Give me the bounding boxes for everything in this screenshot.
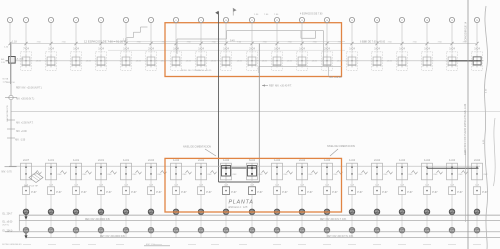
svg-text:1-C4: 1-C4 bbox=[223, 47, 229, 51]
svg-text:REF. NIV. +20.40 P.T.: REF. NIV. +20.40 P.T. bbox=[269, 85, 292, 88]
svg-text:2-C1: 2-C1 bbox=[98, 158, 104, 162]
svg-text:EL. 234.7: EL. 234.7 bbox=[3, 214, 14, 216]
svg-text:1-C4: 1-C4 bbox=[424, 158, 430, 162]
svg-text:1-C4: 1-C4 bbox=[123, 47, 129, 51]
svg-text:1-C4: 1-C4 bbox=[324, 158, 330, 162]
svg-text:+N.05: +N.05 bbox=[237, 61, 243, 63]
svg-text:DET. NIV. 200 D.T.N. D.B.: DET. NIV. 200 D.T.N. D.B. bbox=[327, 236, 354, 238]
svg-text:1-C4: 1-C4 bbox=[349, 47, 355, 51]
svg-text:P-67: P-67 bbox=[307, 191, 313, 194]
svg-text:COINCIDIR EJE 14: COINCIDIR EJE 14 bbox=[466, 21, 468, 42]
svg-text:COINCIDIR CON PLANO ESTRUCTURA: COINCIDIR CON PLANO ESTRUCTURAL E-02 bbox=[464, 103, 467, 155]
svg-text:P-67: P-67 bbox=[357, 191, 363, 194]
svg-text:ESCALA 1 : 125: ESCALA 1 : 125 bbox=[229, 205, 248, 209]
svg-text:1-C4: 1-C4 bbox=[399, 158, 405, 162]
svg-text:1-C4: 1-C4 bbox=[73, 47, 79, 51]
svg-text:P-67: P-67 bbox=[382, 191, 388, 194]
svg-text:12 ESPACIOS DE 7.60 = 91.20 M: 12 ESPACIOS DE 7.60 = 91.20 M bbox=[84, 40, 127, 44]
svg-text:NIVEL DE CONCRETO +20.15: NIVEL DE CONCRETO +20.15 bbox=[181, 70, 212, 72]
svg-text:2-C7: 2-C7 bbox=[23, 158, 29, 162]
svg-text:+N.05: +N.05 bbox=[161, 61, 167, 63]
svg-text:+N.05: +N.05 bbox=[287, 61, 293, 63]
svg-text:1-C4: 1-C4 bbox=[274, 47, 280, 51]
svg-text:1-C4: 1-C4 bbox=[173, 158, 179, 162]
svg-text:P-67: P-67 bbox=[282, 191, 288, 194]
svg-text:NIV. +20.00 (N.T.): NIV. +20.00 (N.T.) bbox=[16, 98, 34, 100]
svg-text:+N.05: +N.05 bbox=[36, 61, 42, 63]
svg-text:P-67: P-67 bbox=[156, 191, 162, 194]
svg-text:1-C4: 1-C4 bbox=[399, 47, 405, 51]
svg-text:1-C4: 1-C4 bbox=[48, 47, 54, 51]
svg-text:+N.05: +N.05 bbox=[186, 61, 192, 63]
svg-text:+N.05: +N.05 bbox=[211, 61, 217, 63]
svg-text:1.18: 1.18 bbox=[12, 41, 17, 44]
svg-text:LA +0.05: LA +0.05 bbox=[16, 57, 25, 60]
svg-text:REF. NIV. 200.0000 D.B.: REF. NIV. 200.0000 D.B. bbox=[85, 219, 111, 221]
svg-text:1-C1: 1-C1 bbox=[123, 158, 129, 162]
svg-text:NIVEL DE CIMENTACION: NIVEL DE CIMENTACION bbox=[183, 145, 211, 148]
svg-text:P-67: P-67 bbox=[181, 191, 187, 194]
svg-text:2-C4: 2-C4 bbox=[198, 158, 204, 162]
svg-text:NOTA: NOTA bbox=[3, 78, 9, 81]
svg-text:2-C4: 2-C4 bbox=[374, 158, 380, 162]
svg-text:1-C4: 1-C4 bbox=[424, 47, 430, 51]
svg-text:NIVEL DE CIMENTACION: NIVEL DE CIMENTACION bbox=[327, 145, 355, 148]
svg-text:1-C4: 1-C4 bbox=[374, 47, 380, 51]
svg-text:1-C1: 1-C1 bbox=[73, 158, 79, 162]
svg-text:PLANTA: PLANTA bbox=[229, 199, 254, 205]
svg-text:1-C4: 1-C4 bbox=[474, 47, 480, 51]
svg-text:NIV. -1.50: NIV. -1.50 bbox=[15, 140, 26, 142]
svg-text:NIV. +0.00: NIV. +0.00 bbox=[16, 131, 27, 133]
svg-text:REF. NIV. +20.00 (N.P.T.): REF. NIV. +20.00 (N.P.T.) bbox=[16, 87, 42, 89]
svg-text:2-C4: 2-C4 bbox=[148, 47, 154, 51]
svg-text:1-C4: 1-C4 bbox=[173, 47, 179, 51]
svg-text:JUNTA CONSTR.: JUNTA CONSTR. bbox=[6, 104, 9, 122]
svg-text:4 ESPACIOS DE 7.60: 4 ESPACIOS DE 7.60 bbox=[300, 13, 323, 16]
svg-text:P-67: P-67 bbox=[106, 191, 112, 194]
svg-text:P-67: P-67 bbox=[231, 191, 237, 194]
svg-text:P-67: P-67 bbox=[257, 191, 263, 194]
svg-text:2-C4: 2-C4 bbox=[299, 158, 305, 162]
svg-text:+N.05: +N.05 bbox=[262, 61, 268, 63]
svg-text:P-67: P-67 bbox=[457, 191, 463, 194]
svg-text:DET. NIV. 200-0000 D.B.: DET. NIV. 200-0000 D.B. bbox=[100, 236, 126, 238]
svg-text:REF. 1.50: REF. 1.50 bbox=[6, 82, 16, 84]
svg-text:P-67: P-67 bbox=[56, 191, 62, 194]
svg-text:1-C4: 1-C4 bbox=[198, 47, 204, 51]
svg-text:+N.05: +N.05 bbox=[136, 61, 142, 63]
svg-text:EL. 234.0: EL. 234.0 bbox=[3, 231, 14, 233]
svg-text:1-C4: 1-C4 bbox=[299, 47, 305, 51]
svg-text:1-C4: 1-C4 bbox=[274, 158, 280, 162]
svg-text:1-C4: 1-C4 bbox=[98, 47, 104, 51]
svg-text:P-67: P-67 bbox=[432, 191, 438, 194]
svg-text:1-C4: 1-C4 bbox=[449, 47, 455, 51]
svg-text:+N.05: +N.05 bbox=[387, 61, 393, 63]
svg-text:NIV. -0.70: NIV. -0.70 bbox=[2, 172, 13, 174]
svg-text:9.45: 9.45 bbox=[230, 40, 235, 43]
svg-text:1-C4: 1-C4 bbox=[349, 158, 355, 162]
svg-text:7-C4: 7-C4 bbox=[23, 47, 29, 51]
svg-text:1-C4: 1-C4 bbox=[223, 158, 229, 162]
svg-text:NIV. +20.40: NIV. +20.40 bbox=[329, 76, 342, 79]
svg-text:NIV. +2.50 N.P.T.: NIV. +2.50 N.P.T. bbox=[16, 123, 34, 125]
svg-text:P-67: P-67 bbox=[206, 191, 212, 194]
svg-text:1.50: 1.50 bbox=[123, 39, 128, 41]
svg-text:2-C4: 2-C4 bbox=[324, 47, 330, 51]
svg-text:6-C4: 6-C4 bbox=[249, 158, 255, 162]
svg-text:+N.05: +N.05 bbox=[86, 61, 92, 63]
svg-text:+N.05: +N.05 bbox=[312, 61, 318, 63]
svg-text:ESC 1:50: ESC 1:50 bbox=[146, 244, 155, 246]
svg-text:(N.P.T.): (N.P.T.) bbox=[3, 224, 10, 226]
svg-text:+N.05: +N.05 bbox=[337, 61, 343, 63]
svg-text:P-67: P-67 bbox=[332, 191, 338, 194]
svg-text:1-C4: 1-C4 bbox=[449, 158, 455, 162]
svg-text:P-67: P-67 bbox=[31, 191, 37, 194]
svg-text:2-C4: 2-C4 bbox=[249, 47, 255, 51]
svg-text:EL. ±0.00: EL. ±0.00 bbox=[3, 221, 14, 223]
svg-text:NOTAS GENERALES: NOTAS GENERALES bbox=[2, 243, 22, 246]
svg-text:P-67: P-67 bbox=[407, 191, 413, 194]
svg-text:P-67: P-67 bbox=[131, 191, 137, 194]
svg-text:2-C4: 2-C4 bbox=[474, 158, 480, 162]
svg-text:DET. NIV. 200 D.N.T. D.B.: DET. NIV. 200 D.N.T. D.B. bbox=[320, 219, 347, 221]
svg-text:2-C4: 2-C4 bbox=[148, 158, 154, 162]
svg-text:P-67: P-67 bbox=[81, 191, 87, 194]
svg-text:P-67: P-67 bbox=[482, 191, 488, 194]
svg-text:1-C1: 1-C1 bbox=[48, 158, 54, 162]
